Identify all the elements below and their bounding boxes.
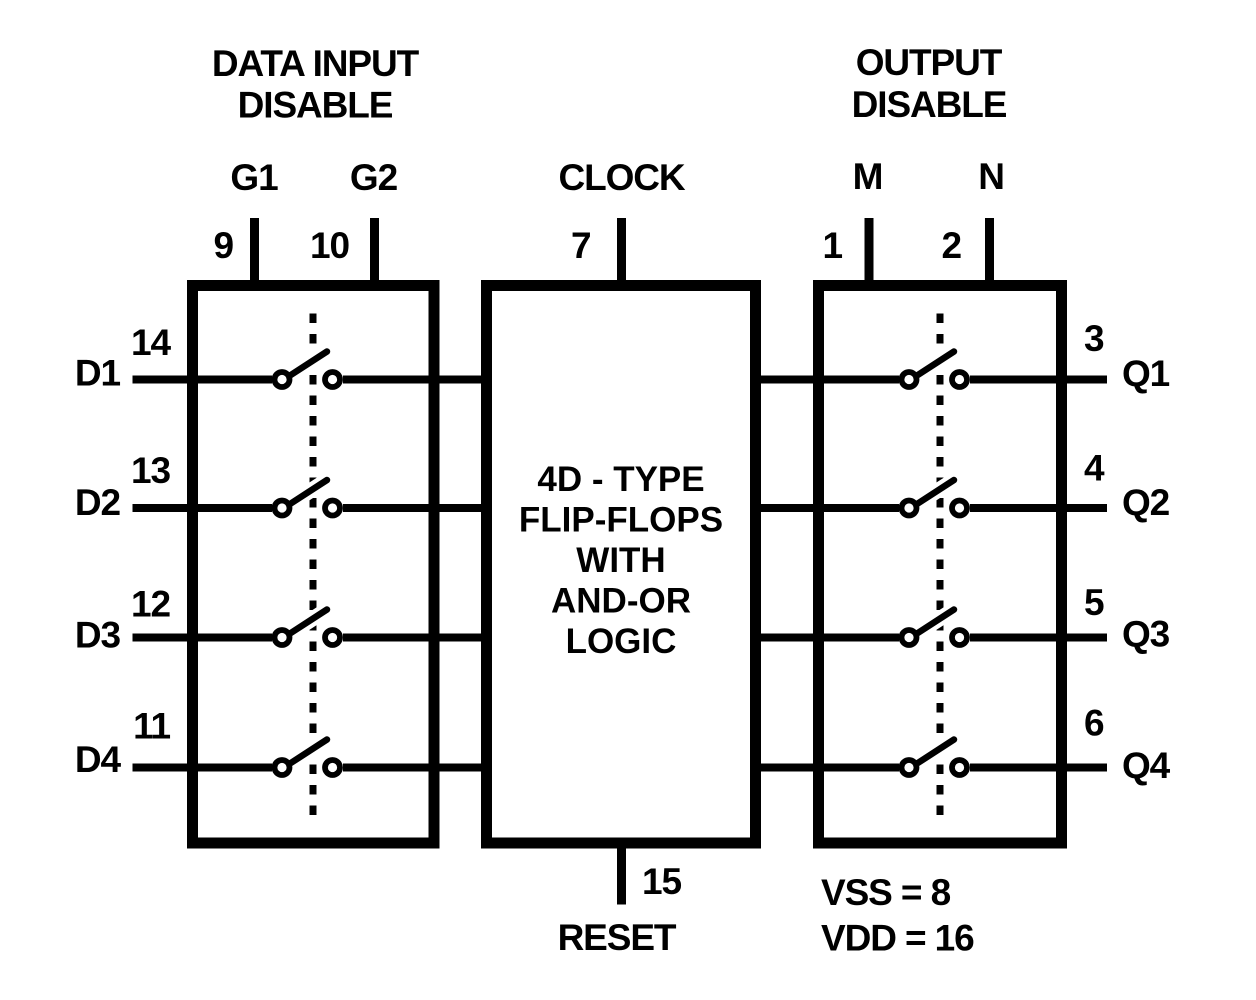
- switch S2b (output disable): [902, 480, 968, 516]
- switch S4a (input disable): [275, 740, 341, 776]
- svg-text:RESET: RESET: [558, 917, 677, 958]
- svg-text:Q4: Q4: [1122, 745, 1171, 786]
- svg-text:WITH: WITH: [576, 541, 665, 580]
- svg-text:D3: D3: [75, 615, 121, 656]
- svg-text:2: 2: [942, 225, 962, 266]
- svg-text:G1: G1: [230, 157, 278, 198]
- switch S3a (input disable): [275, 610, 341, 646]
- wire Q2 flip-flop block to output switch: [752, 504, 899, 512]
- svg-text:12: 12: [131, 584, 170, 625]
- wire D3 switch to flip-flop block: [343, 634, 490, 642]
- svg-text:1: 1: [823, 225, 843, 266]
- wire D4 input segment (pin 11 to switch): [133, 764, 273, 772]
- svg-text:7: 7: [571, 225, 590, 266]
- wire Q4 output segment (switch to pin 6): [970, 764, 1107, 772]
- wire Q4 flip-flop block to output switch: [752, 764, 899, 772]
- svg-text:11: 11: [133, 706, 170, 747]
- svg-text:Q1: Q1: [1122, 353, 1170, 394]
- wire Q3 output segment (switch to pin 5): [970, 634, 1107, 642]
- svg-text:Q3: Q3: [1122, 614, 1170, 655]
- svg-text:VSS = 8: VSS = 8: [821, 872, 951, 913]
- wire D1 switch to flip-flop block: [343, 376, 490, 384]
- block U1c: output disable: [819, 286, 1062, 844]
- svg-text:D4: D4: [75, 739, 122, 780]
- svg-text:DISABLE: DISABLE: [852, 84, 1007, 125]
- svg-text:15: 15: [642, 861, 681, 902]
- pin 10 stub (G2): [370, 218, 379, 290]
- svg-text:10: 10: [310, 225, 349, 266]
- svg-text:D2: D2: [75, 482, 121, 523]
- svg-text:Q2: Q2: [1122, 482, 1170, 523]
- dashed gang line (output disable switches): [937, 314, 944, 818]
- wire Q2 output segment (switch to pin 4): [970, 504, 1107, 512]
- wire D1 input segment (pin 14 to switch): [133, 376, 273, 384]
- pin 9 stub (G1): [250, 218, 259, 290]
- svg-text:CLOCK: CLOCK: [558, 157, 685, 198]
- svg-text:4D - TYPE: 4D - TYPE: [537, 460, 704, 499]
- switch S1b (output disable): [902, 352, 968, 388]
- switch S1a (input disable): [275, 352, 341, 388]
- pin 15 stub (RESET): [617, 843, 626, 905]
- svg-text:OUTPUT: OUTPUT: [856, 42, 1003, 83]
- pin 7 stub (CLOCK): [617, 218, 626, 290]
- svg-text:G2: G2: [350, 157, 398, 198]
- svg-text:DISABLE: DISABLE: [238, 85, 393, 126]
- svg-text:LOGIC: LOGIC: [566, 622, 677, 661]
- svg-text:FLIP-FLOPS: FLIP-FLOPS: [519, 501, 723, 540]
- svg-text:6: 6: [1084, 703, 1104, 744]
- svg-text:N: N: [978, 156, 1004, 197]
- svg-text:M: M: [853, 156, 883, 197]
- svg-text:DATA INPUT: DATA INPUT: [212, 43, 420, 84]
- pin 1 stub (M): [865, 218, 874, 290]
- svg-text:14: 14: [131, 322, 171, 363]
- wire Q1 output segment (switch to pin 3): [970, 376, 1107, 384]
- block U1a: data input disable: [193, 286, 435, 844]
- wire Q3 flip-flop block to output switch: [752, 634, 899, 642]
- switch S4b (output disable): [902, 740, 968, 776]
- svg-text:AND-OR: AND-OR: [551, 582, 691, 621]
- svg-text:4: 4: [1084, 448, 1105, 489]
- switch S3b (output disable): [902, 610, 968, 646]
- svg-text:9: 9: [214, 225, 234, 266]
- wire D4 switch to flip-flop block: [343, 764, 490, 772]
- svg-text:13: 13: [131, 450, 170, 491]
- block U1b: 4D-type flip-flops with AND-OR logic: [487, 286, 756, 844]
- wire D2 input segment (pin 13 to switch): [133, 504, 273, 512]
- wire D2 switch to flip-flop block: [343, 504, 490, 512]
- svg-text:5: 5: [1084, 582, 1104, 623]
- pin 2 stub (N): [985, 218, 994, 290]
- wire Q1 flip-flop block to output switch: [752, 376, 899, 384]
- svg-text:D1: D1: [75, 353, 121, 394]
- svg-text:VDD = 16: VDD = 16: [821, 918, 974, 959]
- dashed gang line (data input disable switches): [310, 314, 317, 818]
- wire D3 input segment (pin 12 to switch): [133, 634, 273, 642]
- switch S2a (input disable): [275, 480, 341, 516]
- svg-text:3: 3: [1084, 318, 1104, 359]
